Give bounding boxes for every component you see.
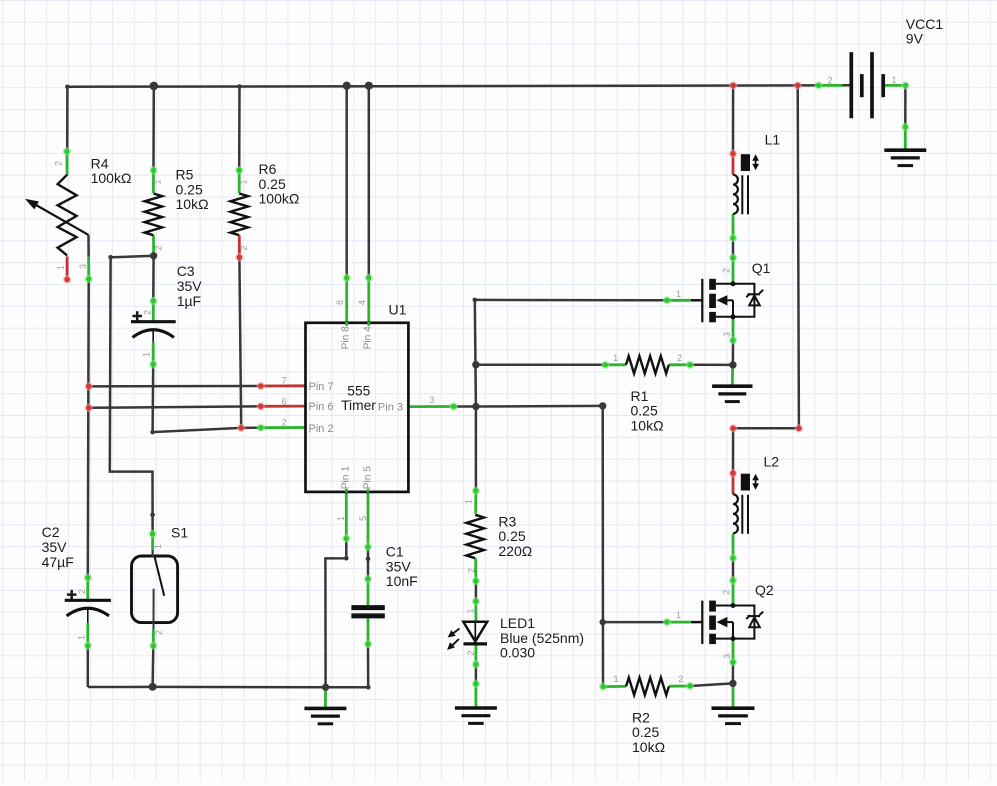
svg-text:0.25: 0.25 xyxy=(259,176,286,192)
svg-text:VCC1: VCC1 xyxy=(906,16,944,32)
svg-text:0.25: 0.25 xyxy=(176,181,203,197)
svg-text:Pin 8: Pin 8 xyxy=(340,326,351,350)
svg-text:35V: 35V xyxy=(42,539,68,555)
svg-text:220Ω: 220Ω xyxy=(498,543,532,559)
svg-text:Q2: Q2 xyxy=(755,582,774,598)
svg-text:1: 1 xyxy=(676,289,681,299)
svg-text:3: 3 xyxy=(429,395,434,405)
svg-text:9V: 9V xyxy=(906,31,924,47)
svg-text:0.25: 0.25 xyxy=(498,528,525,544)
svg-text:Timer: Timer xyxy=(341,398,376,413)
svg-text:R1: R1 xyxy=(631,388,649,404)
svg-text:Pin 6: Pin 6 xyxy=(309,401,334,413)
svg-text:1: 1 xyxy=(56,265,66,270)
svg-text:2: 2 xyxy=(722,268,732,273)
svg-text:555: 555 xyxy=(347,383,370,398)
svg-text:10nF: 10nF xyxy=(386,573,418,589)
svg-text:5: 5 xyxy=(358,516,368,521)
svg-text:2: 2 xyxy=(677,353,682,363)
svg-text:35V: 35V xyxy=(386,558,412,574)
svg-text:2: 2 xyxy=(828,76,833,86)
svg-text:1: 1 xyxy=(676,610,681,620)
svg-text:Pin 1: Pin 1 xyxy=(340,466,351,490)
svg-text:100kΩ: 100kΩ xyxy=(259,191,300,207)
svg-text:10kΩ: 10kΩ xyxy=(631,417,664,433)
svg-text:C2: C2 xyxy=(42,524,60,540)
svg-text:1: 1 xyxy=(77,635,87,640)
svg-text:1: 1 xyxy=(466,608,476,613)
svg-text:100kΩ: 100kΩ xyxy=(91,170,132,186)
svg-text:S1: S1 xyxy=(171,525,188,541)
svg-text:3: 3 xyxy=(722,654,732,659)
svg-text:C1: C1 xyxy=(386,544,404,560)
svg-text:2: 2 xyxy=(154,245,164,250)
svg-text:R3: R3 xyxy=(498,513,516,529)
svg-text:1: 1 xyxy=(153,544,163,549)
svg-text:Pin 4: Pin 4 xyxy=(362,326,373,350)
svg-text:Pin 3: Pin 3 xyxy=(378,402,403,414)
svg-text:2: 2 xyxy=(154,630,164,635)
svg-text:2: 2 xyxy=(678,674,683,684)
svg-text:10kΩ: 10kΩ xyxy=(632,739,665,755)
svg-text:2: 2 xyxy=(143,310,153,315)
svg-text:0.25: 0.25 xyxy=(631,403,658,419)
svg-text:LED1: LED1 xyxy=(500,615,535,631)
svg-text:R5: R5 xyxy=(176,167,194,183)
svg-text:1: 1 xyxy=(464,499,474,504)
svg-text:Pin 2: Pin 2 xyxy=(309,423,334,435)
svg-text:1: 1 xyxy=(613,353,618,363)
svg-text:2: 2 xyxy=(282,417,287,427)
svg-text:1: 1 xyxy=(239,179,249,184)
svg-text:47µF: 47µF xyxy=(42,554,74,570)
svg-text:2: 2 xyxy=(722,590,732,595)
svg-text:Pin 7: Pin 7 xyxy=(309,381,334,393)
svg-text:1µF: 1µF xyxy=(177,293,201,309)
svg-text:1: 1 xyxy=(153,179,163,184)
svg-text:Blue (525nm): Blue (525nm) xyxy=(500,630,584,646)
svg-text:3: 3 xyxy=(722,332,732,337)
svg-text:7: 7 xyxy=(282,376,287,386)
svg-text:0.25: 0.25 xyxy=(632,724,659,740)
svg-text:Q1: Q1 xyxy=(752,260,771,276)
svg-text:10kΩ: 10kΩ xyxy=(176,196,209,212)
svg-text:R6: R6 xyxy=(259,161,277,177)
svg-text:2: 2 xyxy=(467,568,477,573)
svg-text:2: 2 xyxy=(54,161,64,166)
svg-text:1: 1 xyxy=(614,674,619,684)
svg-text:8: 8 xyxy=(335,300,345,305)
svg-text:6: 6 xyxy=(282,396,287,406)
svg-text:L2: L2 xyxy=(764,454,780,470)
svg-text:R4: R4 xyxy=(91,155,109,171)
svg-text:2: 2 xyxy=(77,589,87,594)
svg-text:35V: 35V xyxy=(177,278,203,294)
svg-text:4: 4 xyxy=(357,300,367,305)
svg-text:2: 2 xyxy=(466,650,476,655)
svg-text:U1: U1 xyxy=(389,302,407,318)
svg-text:1: 1 xyxy=(142,352,152,357)
svg-text:2: 2 xyxy=(239,245,249,250)
svg-text:R2: R2 xyxy=(632,709,650,725)
svg-text:1: 1 xyxy=(892,75,897,85)
svg-text:L1: L1 xyxy=(765,132,781,148)
svg-text:Pin 5: Pin 5 xyxy=(362,466,373,490)
svg-text:3: 3 xyxy=(78,264,88,269)
svg-text:1: 1 xyxy=(336,516,346,521)
svg-text:C3: C3 xyxy=(177,263,195,279)
svg-text:0.030: 0.030 xyxy=(500,645,535,661)
